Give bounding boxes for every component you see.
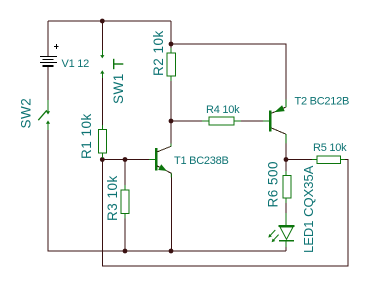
svg-text:SW2: SW2 xyxy=(18,98,33,129)
wire T2 collector down xyxy=(285,143,287,160)
wire R6 top xyxy=(285,160,287,176)
battery V1 xyxy=(40,44,59,66)
node R3 top junction xyxy=(123,157,128,162)
wire battery top lead xyxy=(47,21,49,56)
svg-text:SW1: SW1 xyxy=(111,73,126,104)
svg-text:R4 10k: R4 10k xyxy=(206,104,240,116)
node SW1 top junction xyxy=(100,19,105,24)
switch SW1 xyxy=(100,50,104,78)
wire LED cathode to ground rail xyxy=(285,241,287,251)
switch SW1 key label T xyxy=(113,59,123,69)
resistor R4 xyxy=(202,117,241,125)
svg-text:R3 10k: R3 10k xyxy=(105,175,120,221)
svg-text:T2 BC212B: T2 BC212B xyxy=(295,96,350,108)
svg-text:T1 BC238B: T1 BC238B xyxy=(174,155,229,167)
node R1 bottom junction xyxy=(100,157,105,162)
switch SW2 xyxy=(38,100,50,130)
wire node R2-top to T2 emitter xyxy=(171,44,286,100)
wire SW2 bottom to ground rail xyxy=(48,123,286,251)
wire R4 to T2 base xyxy=(234,120,269,122)
wire R5 right to lower rail xyxy=(341,159,349,161)
wire R6 bottom to LED xyxy=(285,198,287,225)
resistor R3 xyxy=(121,185,129,219)
svg-text:V1 12: V1 12 xyxy=(62,58,90,70)
wire battery bottom to SW2 xyxy=(47,67,49,101)
resistor R2 xyxy=(167,48,176,81)
transistor T1 xyxy=(149,144,171,178)
wire node B down to lower rail xyxy=(102,160,348,267)
resistor R6 xyxy=(283,171,291,203)
svg-text:R6 500: R6 500 xyxy=(266,161,281,208)
node R2 top junction xyxy=(169,42,174,47)
LED light arrows xyxy=(270,230,275,236)
wire R2 bottom to T1 collector xyxy=(170,76,172,146)
wire R2 top node xyxy=(170,21,172,53)
node T1 emitter on ground rail xyxy=(169,249,174,254)
svg-text:R5 10k: R5 10k xyxy=(313,142,347,154)
transistor T2 xyxy=(263,100,286,144)
svg-text:LED1 CQX35A: LED1 CQX35A xyxy=(301,165,316,253)
node T2 collector / R5 / R6 xyxy=(284,157,289,162)
resistor R5 xyxy=(312,156,345,164)
svg-text:R1 10k: R1 10k xyxy=(79,113,94,159)
wire R3 bottom xyxy=(124,214,126,252)
node R2 bottom / R4 / T1 collector xyxy=(169,119,174,124)
resistor R1 xyxy=(98,125,106,158)
svg-text:R2 10k: R2 10k xyxy=(151,30,166,76)
wire SW1 bottom to R1 xyxy=(101,73,103,130)
LED LED1 xyxy=(268,213,294,247)
wire top rail xyxy=(48,20,171,22)
wire SW1 top lead xyxy=(101,21,103,50)
wire R1 bottom node xyxy=(102,153,155,160)
wire T1 emitter to ground rail xyxy=(170,173,172,251)
wire T2 collector node to R5 xyxy=(286,159,317,161)
wire R4 branch xyxy=(171,120,209,122)
node R3 bottom on ground rail xyxy=(123,249,128,254)
wire R3 top xyxy=(124,160,126,191)
